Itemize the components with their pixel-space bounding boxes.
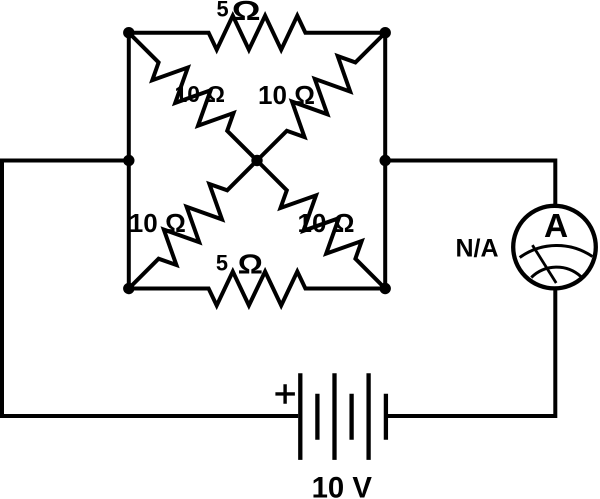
wire ammeter bottom down and left to battery minus terminal: [386, 289, 555, 417]
battery long plate 2: [332, 373, 336, 460]
svg-text:Ω: Ω: [238, 249, 263, 280]
wire MR to ammeter top: [385, 161, 555, 207]
battery short plate 2: [349, 394, 353, 440]
battery V1 positive plate long 1: [298, 373, 302, 460]
ammeter scale big arc: [520, 245, 593, 257]
node ML junction: [123, 155, 134, 166]
resistor 10 ohm diagonal TR to center: [257, 33, 385, 161]
svg-text:5: 5: [216, 250, 228, 275]
wire ML to outer left and down to battery plus terminal: [2, 161, 298, 417]
svg-text:N/A: N/A: [456, 235, 499, 263]
node TL junction: [123, 27, 134, 38]
resistor 5 ohm bottom (between BL and BR): [129, 272, 385, 306]
wire right vertical bridge side TR-MR-BR: [383, 33, 387, 289]
resistor 5 ohm top (between TL and TR): [129, 16, 385, 50]
resistor 10 ohm diagonal BL to center: [129, 161, 257, 289]
svg-text:10 V: 10 V: [312, 471, 373, 499]
svg-text:10 Ω: 10 Ω: [129, 208, 186, 238]
resistor 10 ohm diagonal BR to center: [257, 161, 385, 289]
ammeter A1 body circle: [513, 206, 596, 289]
svg-text:A: A: [544, 208, 568, 245]
resistor 10 ohm diagonal TL to center: [129, 33, 257, 161]
node TR junction: [380, 27, 391, 38]
svg-text:10 Ω: 10 Ω: [258, 80, 315, 110]
ammeter needle: [532, 245, 556, 283]
node MR junction: [380, 155, 391, 166]
svg-text:5: 5: [217, 0, 229, 21]
node center junction: [251, 155, 262, 166]
battery long plate 3: [366, 373, 370, 460]
svg-text:10 Ω: 10 Ω: [298, 208, 355, 238]
svg-text:Ω: Ω: [232, 0, 261, 26]
wire left vertical bridge side TL-ML-BL: [127, 33, 131, 289]
battery plus sign: [275, 384, 295, 404]
node BL junction: [123, 283, 134, 294]
battery short plate 3: [384, 394, 388, 440]
node BR junction: [380, 283, 391, 294]
battery short plate 1: [315, 394, 319, 440]
svg-text:10 Ω: 10 Ω: [175, 81, 225, 107]
ammeter scale small arc: [531, 267, 581, 277]
